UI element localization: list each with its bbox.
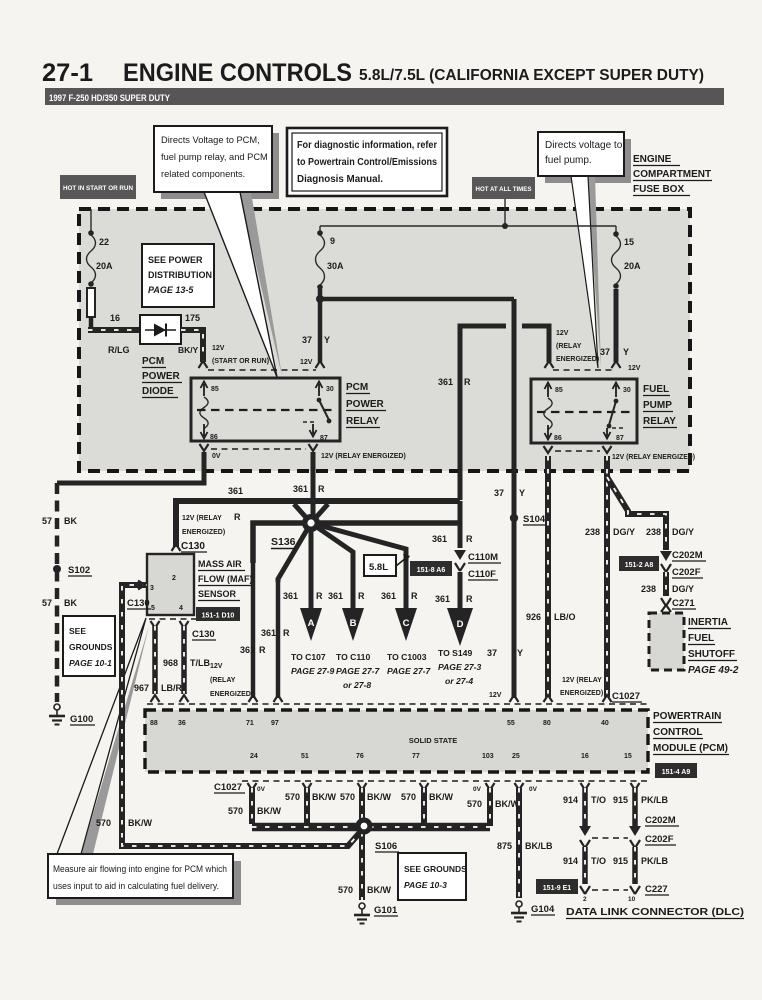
151-2 A8 locator tag bbox=[619, 556, 659, 571]
svg-text:238: 238 bbox=[646, 527, 661, 537]
svg-text:151-9 E1: 151-9 E1 bbox=[543, 885, 572, 892]
wire 57 BK to ground G100 (dashed style) bbox=[55, 483, 60, 702]
svg-text:T/O: T/O bbox=[591, 856, 606, 866]
svg-text:914: 914 bbox=[563, 856, 578, 866]
HOT AT ALL TIMES tag bbox=[472, 177, 535, 199]
svg-text:Diagnosis Manual.: Diagnosis Manual. bbox=[297, 174, 383, 185]
svg-text:51: 51 bbox=[301, 753, 309, 760]
svg-text:C202M: C202M bbox=[672, 550, 703, 561]
svg-text:BK/W: BK/W bbox=[128, 818, 152, 828]
svg-text:uses input to aid in calculati: uses input to aid in calculating fuel de… bbox=[53, 881, 219, 891]
wire 361 to PCM pin 97 (diagonal from S136) bbox=[278, 523, 311, 582]
connector flare: fuel pump relay pin 87 output bbox=[603, 446, 612, 453]
svg-text:fuel pump.: fuel pump. bbox=[545, 155, 592, 166]
svg-text:FLOW (MAF): FLOW (MAF) bbox=[198, 574, 252, 584]
svg-text:76: 76 bbox=[356, 753, 364, 760]
pin 87 dashed rest segment bbox=[612, 427, 625, 429]
svg-text:30: 30 bbox=[326, 386, 334, 393]
node: fuse 15 top terminal bbox=[613, 231, 619, 237]
wire 361 to PCM pin 71 bbox=[251, 523, 256, 698]
svg-text:(RELAY: (RELAY bbox=[210, 677, 236, 684]
connector flare: wire 926 into C1027 bbox=[544, 695, 553, 702]
connector flare: PCM pin 77 lead bbox=[420, 783, 429, 790]
svg-text:SEE GROUNDS: SEE GROUNDS bbox=[404, 864, 467, 874]
svg-text:2: 2 bbox=[583, 896, 587, 903]
connector C227 forks bbox=[580, 886, 590, 894]
HOT IN START OR RUN tag bbox=[60, 175, 136, 199]
arrow A (off-page to C107) bbox=[300, 608, 322, 641]
splice S104 bbox=[510, 514, 518, 522]
callout A leader shadow bbox=[239, 192, 282, 376]
151-9 E1 locator tag bbox=[536, 879, 578, 894]
svg-text:PAGE 27-3: PAGE 27-3 bbox=[438, 662, 482, 672]
callout B outer box bbox=[287, 128, 447, 196]
svg-text:PCM: PCM bbox=[346, 382, 368, 393]
ground G101 symbol bbox=[359, 903, 365, 909]
fuse 22 (20A) element bbox=[87, 235, 96, 283]
svg-text:0V: 0V bbox=[473, 786, 482, 793]
svg-text:88: 88 bbox=[150, 720, 158, 727]
svg-text:G101: G101 bbox=[374, 905, 398, 916]
svg-text:MODULE (PCM): MODULE (PCM) bbox=[653, 743, 728, 754]
svg-text:87: 87 bbox=[320, 435, 328, 442]
fuel pump relay internal dashed link bbox=[537, 411, 630, 413]
svg-text:103: 103 bbox=[482, 753, 494, 760]
wire 570 BK/W from PCM pin 103 bbox=[487, 788, 493, 826]
svg-text:37: 37 bbox=[487, 648, 497, 658]
PCM power relay pin 85 arrow bbox=[203, 384, 205, 396]
svg-text:ENGINE CONTROLS: ENGINE CONTROLS bbox=[123, 59, 352, 87]
svg-text:361: 361 bbox=[283, 591, 298, 601]
wire: PCM relay pin 87 output 361 to S136 bbox=[311, 452, 316, 519]
svg-text:151-8 A6: 151-8 A6 bbox=[417, 567, 446, 574]
splice S136 junction bbox=[302, 514, 320, 532]
connector flares: wires 967/968/361/361 into C1027 bbox=[151, 695, 160, 702]
callout C leader wedge bbox=[571, 176, 598, 368]
svg-text:80: 80 bbox=[543, 720, 551, 727]
svg-text:36: 36 bbox=[178, 720, 186, 727]
connector flare: wire 238 into C1027 bbox=[603, 695, 612, 702]
svg-text:HOT AT ALL TIMES: HOT AT ALL TIMES bbox=[476, 186, 533, 193]
svg-text:361: 361 bbox=[435, 594, 450, 604]
svg-text:BK/LB: BK/LB bbox=[525, 841, 553, 851]
svg-text:R: R bbox=[316, 591, 323, 601]
svg-text:915: 915 bbox=[613, 795, 628, 805]
151-4 A9 locator tag bbox=[655, 763, 697, 778]
svg-text:T/O: T/O bbox=[591, 795, 606, 805]
svg-text:C130: C130 bbox=[127, 598, 150, 609]
svg-text:ENERGIZED): ENERGIZED) bbox=[182, 529, 225, 536]
wire: hot feed to fuse 15 bbox=[615, 226, 617, 233]
svg-text:57: 57 bbox=[42, 598, 52, 608]
svg-text:S102: S102 bbox=[68, 565, 90, 576]
svg-text:SEE POWER: SEE POWER bbox=[148, 255, 203, 265]
wire 915 PK/LB from PCM pin 15 bbox=[632, 788, 638, 826]
svg-text:SOLID STATE: SOLID STATE bbox=[409, 736, 457, 745]
arrow D (off-page to S149) bbox=[447, 608, 473, 646]
svg-text:Y: Y bbox=[623, 347, 629, 357]
svg-text:PK/LB: PK/LB bbox=[641, 795, 669, 805]
svg-text:570: 570 bbox=[96, 818, 111, 828]
svg-text:GROUNDS: GROUNDS bbox=[69, 642, 113, 652]
svg-text:PAGE 49-2: PAGE 49-2 bbox=[688, 665, 739, 676]
wire 37 Y from fuse 15 to fuel pump relay bbox=[614, 289, 619, 362]
DLC dashed links bbox=[592, 837, 628, 839]
svg-text:HOT IN START OR RUN: HOT IN START OR RUN bbox=[63, 185, 133, 192]
callout A box bbox=[154, 126, 272, 192]
svg-text:12V (RELAY: 12V (RELAY bbox=[562, 677, 602, 684]
svg-text:PAGE 27-7: PAGE 27-7 bbox=[336, 666, 381, 676]
wire 968 T/LB (hashed) bbox=[181, 626, 187, 694]
wire 361 to C110 / arrow D bbox=[458, 501, 463, 548]
wire 361 R feed (right segment to coil) bbox=[522, 326, 549, 362]
svg-text:(START OR RUN): (START OR RUN) bbox=[212, 358, 269, 365]
svg-text:BK/W: BK/W bbox=[367, 792, 391, 802]
wire 361 R feed to fuel pump relay coil (left segment) bbox=[460, 326, 506, 500]
wire 967 LB/R (hashed) bbox=[152, 626, 158, 694]
svg-text:TO S149: TO S149 bbox=[438, 648, 472, 658]
inertia fuel shutoff box bbox=[649, 613, 684, 670]
wire 361 bus (S136 upper rail) bbox=[176, 501, 460, 547]
thin hot bus between fuse 9 and fuse 15 bbox=[320, 225, 616, 227]
svg-text:C227: C227 bbox=[645, 884, 668, 895]
svg-text:A: A bbox=[308, 618, 315, 629]
svg-text:20A: 20A bbox=[96, 261, 113, 271]
svg-text:TO C110: TO C110 bbox=[336, 652, 370, 662]
svg-text:570: 570 bbox=[285, 792, 300, 802]
svg-text:361: 361 bbox=[228, 486, 243, 496]
svg-text:86: 86 bbox=[210, 434, 218, 441]
connector dashed line below fuel pump relay bbox=[555, 450, 600, 452]
svg-text:R: R bbox=[358, 591, 365, 601]
svg-text:PAGE 27-7: PAGE 27-7 bbox=[387, 666, 432, 676]
connector flare: PCM pin 51 lead bbox=[303, 783, 312, 790]
wire 238 DG/Y to C271 bbox=[663, 572, 669, 596]
wire 570 BK/W from PCM pin 24 bbox=[249, 788, 255, 824]
svg-text:361: 361 bbox=[432, 534, 447, 544]
svg-text:77: 77 bbox=[412, 753, 420, 760]
svg-text:12V (RELAY ENERGIZED): 12V (RELAY ENERGIZED) bbox=[321, 453, 406, 460]
connector flare: wire 37 into C1027 bbox=[510, 695, 519, 702]
svg-text:12V: 12V bbox=[628, 365, 641, 372]
svg-text:PAGE 10-1: PAGE 10-1 bbox=[69, 658, 112, 668]
svg-text:C1027: C1027 bbox=[612, 691, 640, 702]
PCM power relay pin 86 arrow bbox=[203, 424, 205, 436]
svg-text:POWER: POWER bbox=[346, 399, 385, 410]
fuel pump relay pin 85 arrow bbox=[547, 385, 549, 397]
connector flare: PCM pin 103 lead bbox=[486, 783, 495, 790]
svg-text:3: 3 bbox=[150, 585, 154, 592]
fuel pump relay pin 86 arrow bbox=[547, 425, 549, 437]
node: fuse 9 bottom terminal bbox=[317, 284, 323, 290]
svg-text:Y: Y bbox=[517, 648, 523, 658]
svg-text:361: 361 bbox=[293, 484, 308, 494]
fuel pump relay switch blade bbox=[614, 399, 619, 404]
svg-text:R: R bbox=[466, 594, 473, 604]
connector flare: PCM pin 76 lead bbox=[358, 783, 367, 790]
connector C271 (female fork) bbox=[661, 598, 671, 606]
PCM power relay coil bbox=[200, 397, 208, 429]
svg-text:CONTROL: CONTROL bbox=[653, 727, 702, 738]
connector flare: wire 175 into relay connector bbox=[199, 361, 208, 368]
svg-text:C1027: C1027 bbox=[214, 782, 242, 793]
svg-text:361: 361 bbox=[261, 628, 276, 638]
svg-text:ENERGIZED): ENERGIZED) bbox=[210, 691, 253, 698]
S136 spoke to bus upper-right bbox=[311, 504, 328, 523]
fuse box (engine compartment, dashed gray panel) bbox=[79, 209, 690, 471]
svg-text:DISTRIBUTION: DISTRIBUTION bbox=[148, 270, 212, 280]
node: fuse 22 top terminal bbox=[88, 230, 94, 236]
svg-text:ENGINE: ENGINE bbox=[633, 154, 672, 165]
svg-text:12V: 12V bbox=[210, 663, 223, 670]
node: hot bus junction bbox=[502, 223, 508, 229]
svg-text:12V (RELAY: 12V (RELAY bbox=[182, 515, 222, 522]
node: wire 37 branch junction bbox=[316, 295, 324, 303]
svg-text:0V: 0V bbox=[529, 786, 538, 793]
wire 361 R below C110F bbox=[458, 572, 463, 608]
fuel pump relay pin 87 arrow bbox=[606, 428, 608, 436]
svg-text:0V: 0V bbox=[257, 786, 266, 793]
svg-text:12V (RELAY ENERGIZED): 12V (RELAY ENERGIZED) bbox=[612, 454, 695, 461]
svg-text:PAGE 10-3: PAGE 10-3 bbox=[404, 880, 447, 890]
fuel pump relay coil bbox=[544, 398, 552, 430]
svg-text:151-1 D10: 151-1 D10 bbox=[202, 613, 235, 620]
svg-text:C130: C130 bbox=[181, 541, 205, 552]
MAF sensor box bbox=[147, 554, 194, 615]
svg-text:RELAY: RELAY bbox=[643, 416, 676, 427]
wire 361 branch B (diagonal then down) bbox=[311, 523, 353, 608]
svg-text:16: 16 bbox=[581, 753, 589, 760]
svg-text:361: 361 bbox=[240, 645, 255, 655]
wire 238 DG/Y from fuel pump relay pin 87 (left branch to PCM pin 40) bbox=[604, 456, 610, 697]
wire 37 Y vertical to S104 bbox=[512, 299, 517, 698]
5.8L note box bbox=[364, 555, 396, 576]
connector flare: fuse 15 wire into fuel pump relay bbox=[612, 361, 621, 368]
svg-text:12V: 12V bbox=[556, 330, 569, 337]
svg-text:Measure air flowing into engin: Measure air flowing into engine for PCM … bbox=[53, 864, 227, 874]
wire 175 BK/Y (hashed) bbox=[181, 330, 203, 362]
svg-text:570: 570 bbox=[338, 885, 353, 895]
connector flare: fuel pump relay pin 86 output bbox=[544, 446, 553, 453]
svg-text:DIODE: DIODE bbox=[142, 386, 174, 397]
svg-text:T/LB: T/LB bbox=[190, 658, 210, 668]
svg-text:20A: 20A bbox=[624, 261, 641, 271]
SEE GROUNDS PAGE 10-3 note box bbox=[398, 853, 466, 900]
header bar bbox=[45, 88, 724, 105]
callout C shadow bbox=[545, 139, 631, 183]
connector flare: MAF pin 5 lead top bbox=[151, 621, 160, 628]
PCM power relay pin 30 arrow bbox=[318, 384, 320, 396]
svg-text:86: 86 bbox=[554, 435, 562, 442]
svg-text:BK: BK bbox=[64, 516, 77, 526]
measure-air callout shadow bbox=[56, 861, 241, 905]
svg-text:S106: S106 bbox=[375, 841, 397, 852]
svg-text:C202M: C202M bbox=[645, 815, 676, 826]
connector arrow into MAF pin 3 bbox=[138, 581, 145, 590]
svg-text:361: 361 bbox=[438, 377, 453, 387]
wire 361 branch C (diagonal then down) bbox=[311, 523, 406, 608]
fuel pump relay pin 30 arrow bbox=[615, 385, 617, 397]
svg-text:related components.: related components. bbox=[161, 169, 245, 179]
svg-text:R: R bbox=[411, 591, 418, 601]
wire 570 BK/W from PCM pin 77 bbox=[421, 788, 427, 824]
svg-text:915: 915 bbox=[613, 856, 628, 866]
svg-text:BK/W: BK/W bbox=[257, 806, 281, 816]
svg-text:37: 37 bbox=[600, 347, 610, 357]
connector flare: PCM pin 25 lead bbox=[515, 783, 524, 790]
PCM power relay switch blade bbox=[317, 398, 322, 403]
svg-text:FUSE BOX: FUSE BOX bbox=[633, 184, 684, 195]
svg-text:570: 570 bbox=[340, 792, 355, 802]
svg-text:DG/Y: DG/Y bbox=[672, 584, 694, 594]
svg-text:FUEL: FUEL bbox=[688, 633, 714, 644]
wire 361 branch A (to arrow A) bbox=[309, 523, 314, 608]
svg-text:97: 97 bbox=[271, 720, 279, 727]
splice S106 junction bbox=[356, 818, 373, 835]
connector C110M (male arrow) bbox=[454, 550, 466, 560]
svg-text:151-4 A9: 151-4 A9 bbox=[662, 769, 691, 776]
svg-text:30A: 30A bbox=[327, 261, 344, 271]
callout C box bbox=[538, 132, 624, 176]
svg-text:12V: 12V bbox=[489, 692, 502, 699]
svg-text:or 27-4: or 27-4 bbox=[445, 676, 473, 686]
wire 16 R/LG (hashed) bbox=[88, 327, 141, 333]
splice S102 bbox=[53, 565, 61, 573]
svg-text:570: 570 bbox=[467, 799, 482, 809]
pin 87 dashed rest segment bbox=[303, 421, 316, 423]
svg-text:to Powertrain Control/Emission: to Powertrain Control/Emissions bbox=[297, 157, 438, 168]
PCM power diode D1 box bbox=[140, 315, 181, 344]
connector flare: wire 37 into PCM relay bbox=[316, 361, 325, 368]
wire 915 PK/LB to C227 bbox=[632, 847, 638, 884]
svg-text:INERTIA: INERTIA bbox=[688, 617, 728, 628]
svg-text:570: 570 bbox=[228, 806, 243, 816]
svg-text:175: 175 bbox=[185, 313, 200, 323]
svg-text:FUEL: FUEL bbox=[643, 384, 669, 395]
fuel pump relay box bbox=[531, 379, 637, 443]
svg-text:12V: 12V bbox=[300, 359, 313, 366]
svg-text:R: R bbox=[234, 512, 241, 522]
svg-text:BK/W: BK/W bbox=[495, 799, 519, 809]
svg-text:SENSOR: SENSOR bbox=[198, 589, 237, 599]
svg-text:238: 238 bbox=[641, 584, 656, 594]
svg-text:926: 926 bbox=[526, 612, 541, 622]
svg-text:R/LG: R/LG bbox=[108, 345, 130, 355]
wire: S106 to ground G101 bbox=[359, 832, 365, 900]
PCM box (powertrain control module) bbox=[145, 710, 648, 772]
connector dashed line above PCM power relay bbox=[208, 369, 316, 371]
connector flare: PCM pin 24 lead bbox=[248, 783, 257, 790]
ground bus rail through S106 bbox=[252, 823, 490, 832]
svg-text:C271: C271 bbox=[672, 598, 695, 609]
svg-text:R: R bbox=[318, 484, 325, 494]
5.8L note arrow bbox=[396, 558, 406, 566]
svg-text:15: 15 bbox=[624, 753, 632, 760]
svg-text:C130: C130 bbox=[192, 629, 215, 640]
connector C1027 dashed line above PCM bbox=[147, 703, 648, 705]
wire: PCM relay pin 86 to ground run bbox=[57, 452, 204, 483]
svg-text:238: 238 bbox=[585, 527, 600, 537]
svg-text:G104: G104 bbox=[531, 904, 555, 915]
svg-text:SHUTOFF: SHUTOFF bbox=[688, 649, 735, 660]
svg-text:fuel pump relay, and PCM: fuel pump relay, and PCM bbox=[161, 152, 268, 162]
svg-text:DG/Y: DG/Y bbox=[672, 527, 694, 537]
svg-text:S104: S104 bbox=[523, 514, 546, 525]
svg-text:LB/O: LB/O bbox=[554, 612, 576, 622]
svg-text:24: 24 bbox=[250, 753, 258, 760]
svg-text:4: 4 bbox=[179, 605, 183, 612]
svg-text:ENERGIZED): ENERGIZED) bbox=[560, 690, 603, 697]
callout C leader shadow bbox=[587, 176, 601, 368]
svg-text:DATA LINK CONNECTOR (DLC): DATA LINK CONNECTOR (DLC) bbox=[566, 907, 744, 918]
arrow C (off-page to C1003) bbox=[395, 608, 417, 641]
connector C1027 dashed line below PCM bbox=[242, 780, 650, 782]
svg-text:RELAY: RELAY bbox=[346, 416, 379, 427]
svg-text:22: 22 bbox=[99, 237, 109, 247]
wire: MAF pin 3 to 570 run (hashed) bbox=[122, 585, 147, 843]
ground G100 symbol bbox=[54, 704, 60, 710]
svg-text:27-1: 27-1 bbox=[42, 59, 93, 87]
svg-text:570: 570 bbox=[401, 792, 416, 802]
arrow B (off-page to C110) bbox=[342, 608, 364, 641]
measure-air callout box bbox=[48, 854, 233, 898]
ground G104 symbol bbox=[516, 901, 522, 907]
svg-text:BK/W: BK/W bbox=[367, 885, 391, 895]
SEE POWER DISTRIBUTION note box bbox=[142, 244, 214, 307]
wire 914 T/O from PCM pin 16 bbox=[582, 788, 588, 826]
wire 926 LB/O fuel pump relay pin 86 to PCM pin 80 bbox=[545, 456, 551, 697]
wire from HOT AT ALL TIMES bbox=[504, 199, 506, 226]
callout A shadow bbox=[161, 133, 279, 199]
svg-text:875: 875 bbox=[497, 841, 512, 851]
svg-text:914: 914 bbox=[563, 795, 578, 805]
wire: hot feed to fuse 22 bbox=[90, 209, 92, 232]
svg-text:R: R bbox=[283, 628, 290, 638]
wire: fuse 22 output elbow bbox=[89, 317, 94, 328]
connector dashed line below MAF bbox=[149, 618, 196, 620]
measure-air callout leader wedge bbox=[57, 618, 146, 854]
connector C202F (female fork) bbox=[661, 564, 671, 572]
svg-text:MASS AIR: MASS AIR bbox=[198, 559, 242, 569]
svg-text:5.8L/7.5L (CALIFORNIA EXCEPT S: 5.8L/7.5L (CALIFORNIA EXCEPT SUPER DUTY) bbox=[359, 67, 704, 84]
svg-text:Directs Voltage to PCM,: Directs Voltage to PCM, bbox=[161, 135, 260, 145]
connector dashed line below PCM power relay bbox=[211, 448, 306, 450]
svg-text:R: R bbox=[466, 534, 473, 544]
svg-text:37: 37 bbox=[494, 488, 504, 498]
svg-text:85: 85 bbox=[555, 387, 563, 394]
svg-text:TO C1003: TO C1003 bbox=[387, 652, 427, 662]
svg-text:12V: 12V bbox=[212, 345, 225, 352]
svg-text:16: 16 bbox=[110, 313, 120, 323]
svg-text:PCM: PCM bbox=[142, 356, 164, 367]
svg-text:0V: 0V bbox=[212, 453, 221, 460]
wire 570 BK/W from PCM pin 76 into S106 bbox=[359, 788, 365, 820]
svg-text:D: D bbox=[457, 619, 464, 630]
svg-text:C202F: C202F bbox=[645, 834, 674, 845]
PCM power relay pin 87 arrow bbox=[312, 424, 314, 434]
svg-text:BK: BK bbox=[64, 598, 77, 608]
151-1 D10 locator tag bbox=[196, 607, 240, 621]
svg-text:5: 5 bbox=[151, 605, 155, 612]
wire 875 BK/LB from PCM pin 25 to G104 bbox=[516, 788, 522, 898]
connector flare: MAF pin 4 lead top bbox=[180, 621, 189, 628]
svg-text:10: 10 bbox=[628, 896, 636, 903]
connector C202M arrows (DLC wires) bbox=[579, 826, 591, 836]
svg-text:PK/LB: PK/LB bbox=[641, 856, 669, 866]
node: fuse 15 bottom terminal bbox=[613, 283, 619, 289]
svg-text:G100: G100 bbox=[70, 714, 93, 725]
151-8 A6 locator tag bbox=[410, 561, 452, 576]
